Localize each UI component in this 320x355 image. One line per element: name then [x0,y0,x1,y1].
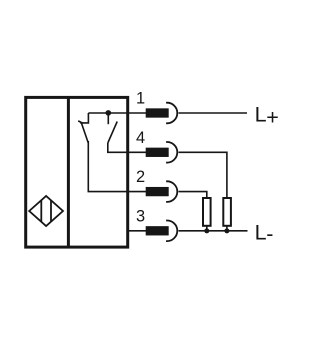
svg-text:+: + [266,105,279,129]
svg-text:4: 4 [136,129,145,147]
svg-text:1: 1 [136,90,145,108]
svg-text:L: L [255,103,267,127]
svg-text:3: 3 [136,207,145,225]
svg-text:L: L [255,221,267,245]
svg-text:-: - [266,222,273,246]
svg-text:2: 2 [136,168,145,186]
